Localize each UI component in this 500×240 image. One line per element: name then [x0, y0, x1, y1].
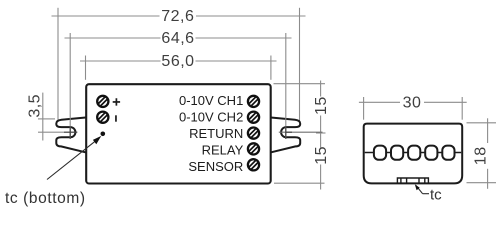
tc leader arrow [47, 141, 96, 180]
svg-text:64,6: 64,6 [161, 30, 194, 47]
wire: extension line left 56,0 [85, 56, 87, 80]
svg-text:18: 18 [473, 146, 490, 165]
terminal screw SENSOR [247, 159, 259, 171]
svg-text:0-10V CH1: 0-10V CH1 [179, 93, 243, 108]
hole center mark left [64, 131, 77, 133]
wire: extension line left 30 [363, 97, 365, 120]
dimension 18 [467, 118, 497, 189]
mounting tab right [270, 117, 301, 152]
svg-text:15: 15 [313, 146, 330, 165]
tc point dot [101, 132, 106, 137]
terminal bump 5 [442, 146, 454, 160]
wire: extension line left 72,6 [57, 8, 59, 121]
tc connector detail (bottom of side view) [397, 178, 428, 183]
hole center mark right [279, 131, 323, 133]
svg-text:72,6: 72,6 [161, 8, 194, 25]
svg-text:tc (bottom): tc (bottom) [5, 190, 86, 207]
wire: extension line right 56,0 [270, 56, 272, 80]
mounting tab left [56, 117, 87, 152]
svg-text:30: 30 [403, 94, 422, 111]
dimension 64,6 [65, 30, 292, 47]
svg-text:15: 15 [313, 96, 330, 115]
svg-text:56,0: 56,0 [161, 53, 194, 70]
tc leader (side view) [416, 186, 423, 194]
seam line [365, 152, 462, 154]
enclosure body (side view) [364, 124, 463, 184]
label minus (vertical bar) [115, 115, 117, 121]
terminal screw CH1 [247, 95, 259, 107]
svg-text:3,5: 3,5 [27, 94, 44, 118]
label + [113, 101, 120, 103]
terminal screw minus [97, 111, 109, 123]
terminal bump 2 [391, 146, 403, 160]
svg-text:tc: tc [430, 187, 442, 204]
wire: extension line right 64,6 [285, 33, 287, 139]
dimension 72,6 [52, 8, 306, 25]
terminal screw CH2 [247, 111, 259, 123]
terminal bump 1 [374, 146, 386, 160]
dimension 3,5 [27, 93, 65, 141]
wire: extension line right 72,6 [299, 8, 301, 121]
enclosure body (top view) [86, 84, 271, 183]
wire: extension line right 30 [461, 97, 463, 120]
dimension 30 [359, 94, 467, 111]
svg-text:RETURN: RETURN [189, 126, 243, 141]
terminal screw RETURN [247, 127, 259, 139]
dimension 15 bottom right [274, 146, 330, 189]
svg-text:0-10V CH2: 0-10V CH2 [179, 110, 243, 125]
terminal screw + [97, 95, 109, 107]
terminal bump 3 [408, 146, 420, 160]
svg-text:RELAY: RELAY [202, 143, 244, 158]
terminal screw RELAY [247, 143, 259, 155]
terminal bump 4 [425, 146, 437, 160]
wire: extension line left 64,6 [69, 33, 71, 139]
dimension 15 top right [274, 81, 331, 148]
svg-text:SENSOR: SENSOR [188, 159, 243, 174]
dimension 56,0 [80, 53, 277, 70]
